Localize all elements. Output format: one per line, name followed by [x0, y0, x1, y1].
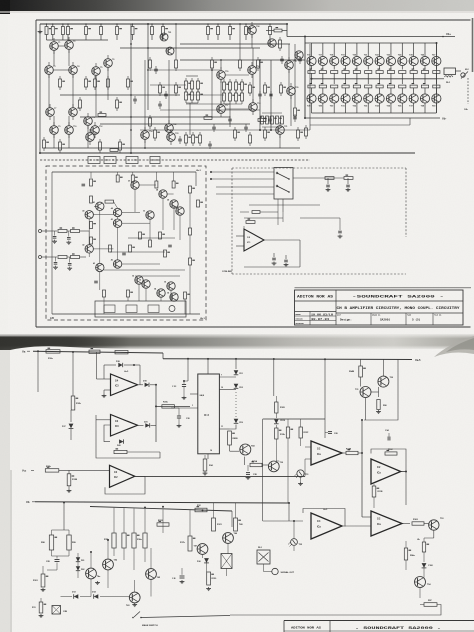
wire [63, 502, 65, 530]
resistor [257, 57, 259, 60]
resistor [297, 127, 299, 130]
wire [180, 59, 305, 61]
IC3 right pin 7 [219, 376, 236, 378]
wire [140, 129, 310, 131]
relay RL2 [257, 550, 270, 564]
ground at op-amp input [104, 389, 111, 391]
wire [53, 69, 69, 71]
capacitor [213, 124, 215, 127]
transistor T25 [160, 33, 168, 41]
wire [293, 521, 295, 539]
resistor [139, 232, 142, 239]
page 1 schematic frame [36, 19, 471, 21]
resistor [261, 116, 264, 124]
resistor [90, 222, 93, 229]
wire [244, 457, 246, 465]
capacitor [259, 91, 261, 94]
resistor R26b [114, 450, 127, 453]
resistor [43, 137, 45, 140]
resistor R98 [51, 530, 53, 535]
transistor T7 [46, 108, 55, 117]
resistor [159, 232, 162, 239]
wire [141, 616, 230, 618]
emitter resistor R124 (row 1) [401, 66, 403, 70]
wire loop [364, 360, 398, 421]
wire [186, 94, 224, 96]
input terminal 2 [39, 256, 42, 259]
resistor [264, 127, 266, 130]
wire [123, 508, 125, 533]
dashed separator line [40, 159, 310, 161]
emitter resistor R138 (row 2) [424, 79, 426, 84]
resistor [249, 82, 251, 85]
wire [264, 239, 300, 241]
wire [94, 205, 96, 207]
wire [251, 34, 253, 48]
emitter resistor R127 (row 1) [435, 66, 437, 70]
wire [103, 365, 105, 379]
wire [99, 272, 101, 290]
wire [290, 95, 292, 126]
resistor R16b [143, 533, 147, 548]
transistor T8 [69, 108, 78, 117]
wire [288, 44, 290, 61]
wire [99, 211, 101, 264]
IC3 box [198, 374, 220, 454]
resistor [175, 57, 177, 60]
resistor [258, 119, 266, 122]
wire [273, 359, 275, 396]
wire [160, 109, 260, 111]
wire op-amp outputs to IC3 [156, 405, 190, 407]
wire [220, 60, 222, 71]
wire [184, 299, 186, 314]
resistor R90 [377, 400, 380, 410]
capacitor C3B [180, 575, 185, 577]
wire [53, 116, 55, 126]
wire [305, 464, 371, 466]
wire [150, 69, 220, 71]
transistor T47 [131, 181, 139, 189]
wire [150, 84, 186, 86]
transistor T16 [248, 66, 257, 75]
capacitor [299, 56, 301, 59]
resistor R73a [250, 463, 262, 466]
dashed enclosure (coupling circuitry) [46, 166, 206, 320]
transistor T40 [85, 211, 93, 219]
junction [130, 43, 132, 45]
bottom rail of input stage [40, 152, 415, 154]
left feed bus of output stage [304, 37, 306, 119]
capacitor C30 [177, 415, 181, 417]
emitter resistor R122 (row 1) [379, 66, 381, 70]
resistor [127, 76, 129, 79]
resistor R121 [212, 518, 216, 531]
wire [305, 446, 311, 448]
capacitor C38 [247, 465, 249, 471]
capacitor [168, 244, 172, 246]
crystal C2B [52, 606, 61, 615]
wire [216, 193, 274, 195]
connector block [150, 157, 160, 164]
wire [60, 94, 180, 96]
power rail Ub- (bottom of output stage) [305, 117, 440, 119]
emitter resistor R128 (row 2) [311, 79, 313, 84]
capacitor [338, 230, 342, 232]
left bus wire [39, 24, 41, 153]
junction [130, 94, 132, 96]
resistor R13b [68, 470, 70, 473]
wire [127, 297, 129, 301]
junction dots page 2 [63, 502, 65, 504]
wire [227, 543, 229, 553]
wire [90, 552, 92, 568]
transistor T45 [113, 219, 121, 227]
ground [134, 603, 136, 605]
LED CD2 [234, 384, 239, 389]
output transistor T35 (row 2) [386, 94, 395, 103]
resistor [191, 78, 193, 81]
wire [288, 69, 290, 87]
dashed enclosure (relay section) [232, 167, 406, 169]
ground [97, 581, 99, 583]
resistor R96b [422, 542, 425, 552]
resistor [116, 97, 118, 100]
resistor R99 [68, 530, 70, 535]
resistor [129, 245, 132, 252]
output transistor T25 (row 1) [413, 43, 415, 57]
transistor T3 [45, 66, 54, 75]
transistor T54 [157, 289, 165, 297]
wire [138, 284, 140, 301]
dotted continuation [235, 392, 237, 417]
resistor R44 [71, 256, 80, 259]
resistor R5 [85, 24, 87, 27]
wire [95, 75, 97, 117]
wire [277, 199, 279, 225]
transistor T1 [50, 42, 59, 51]
capacitor [134, 96, 136, 99]
wire [252, 48, 254, 66]
capacitor C40 [327, 178, 329, 184]
resistor [155, 172, 157, 181]
wire [144, 509, 146, 533]
diode CD10 [275, 413, 277, 418]
transistor T47 [197, 544, 208, 555]
resistor R15 [269, 24, 271, 27]
wire [365, 398, 367, 421]
wire [339, 218, 341, 230]
diode D13 [74, 594, 79, 599]
transistor T10 [65, 126, 74, 135]
connector block [88, 157, 100, 164]
resistor R12a [46, 350, 60, 353]
resistor [110, 149, 118, 152]
LED CD9 [234, 419, 239, 424]
emitter resistor R118 (row 1) [333, 66, 335, 70]
feedback box R102 [378, 449, 404, 458]
resistor [223, 79, 225, 82]
wire [37, 351, 39, 392]
resistor [249, 132, 251, 135]
resistor R12 [217, 24, 219, 27]
transistor T45 [146, 569, 157, 580]
output transistor T16 (row 1) [311, 43, 313, 57]
wire [44, 147, 300, 149]
ground [378, 410, 380, 412]
resistor R42 [71, 230, 80, 233]
resistor R163 [412, 522, 424, 525]
feedback loop [105, 476, 145, 494]
capacitor C42 [273, 253, 275, 257]
resistor [159, 82, 161, 85]
wire [244, 217, 283, 219]
wire [225, 108, 249, 110]
wire [300, 217, 340, 219]
wire [160, 297, 162, 301]
wire [293, 177, 344, 179]
capacitor C43 [285, 255, 287, 259]
wire [226, 569, 228, 577]
resistor [173, 172, 175, 181]
wire [423, 568, 425, 578]
resistor [197, 78, 199, 81]
wire [72, 74, 74, 108]
resistor [85, 76, 87, 79]
resistor [119, 139, 121, 142]
transistor T30 [268, 461, 279, 472]
mask switch [134, 612, 140, 618]
output transistor T29 (row 2) [318, 94, 327, 103]
resistor [98, 114, 106, 117]
wire [68, 134, 70, 148]
transistor T20 [287, 87, 296, 96]
wire [382, 360, 384, 377]
wire [309, 44, 311, 130]
resistor [149, 240, 152, 247]
ground [208, 587, 210, 589]
wire [139, 184, 156, 186]
wire [170, 290, 172, 301]
transistor T4 [69, 66, 78, 75]
capacitor [294, 114, 296, 117]
output transistor T19 (row 1) [345, 43, 347, 57]
transistor T44 [240, 444, 251, 455]
feedback wire loop [104, 425, 111, 442]
sub-module box [95, 301, 186, 317]
resistor [105, 200, 114, 203]
wire [230, 605, 441, 616]
resistor R96a [404, 548, 407, 560]
wire [189, 103, 191, 135]
resistor R41 [58, 230, 67, 233]
emitter resistor R131 (row 2) [345, 79, 347, 84]
resistor R11 [207, 24, 209, 27]
wire [113, 508, 115, 533]
resistor [107, 76, 109, 79]
wire [117, 227, 119, 260]
wire [175, 24, 177, 57]
wire [189, 193, 191, 228]
resistor [192, 132, 194, 135]
resistor [127, 290, 130, 297]
wire [171, 407, 179, 409]
wire [402, 523, 410, 525]
resistor [235, 90, 237, 93]
wire [260, 211, 278, 213]
transistor T24 [248, 26, 257, 35]
wire [122, 263, 160, 265]
transistor T46 [223, 533, 234, 544]
wire [135, 275, 180, 277]
resistor R12c [89, 350, 100, 353]
resistor [241, 79, 243, 82]
wire [211, 178, 274, 180]
resistor R1 [46, 24, 48, 27]
resistor [191, 89, 193, 92]
resistor R16 [274, 29, 282, 32]
wire [68, 49, 70, 66]
resistor R7 [116, 24, 118, 27]
resistor [59, 139, 61, 142]
output transistor T22 (row 1) [379, 43, 381, 57]
resistor R13h [275, 428, 278, 439]
wire [262, 419, 264, 521]
resistor [79, 97, 81, 100]
IC3 left pin 1 [171, 407, 198, 409]
power rail Ub+ (top) [287, 36, 455, 38]
wire [144, 139, 146, 148]
wire [288, 503, 290, 521]
resistor [164, 250, 167, 257]
capacitor C33 [187, 359, 189, 381]
output transistor T30 (row 2) [330, 94, 339, 103]
output transistor T31 (row 2) [341, 94, 350, 103]
resistor [197, 200, 200, 207]
wire [104, 269, 185, 271]
wire [53, 50, 55, 66]
transistor T42 [85, 245, 93, 253]
transistor T52 (indicator) [291, 539, 298, 546]
transistor T28 [295, 51, 303, 59]
wire [235, 359, 237, 369]
IC3 left pin 2 [190, 393, 198, 395]
resistor R10b [45, 469, 59, 472]
output stage collector bus [305, 42, 437, 44]
transistor T41 [96, 202, 104, 210]
transistor T22 [165, 124, 174, 133]
transistor T48 [159, 190, 167, 198]
resistor R4 [67, 24, 69, 27]
wire [162, 198, 164, 230]
wire [107, 67, 109, 100]
wire [186, 75, 198, 77]
emitter resistor R136 (row 2) [401, 79, 403, 84]
output transistor T36 (row 2) [398, 94, 407, 103]
wire [262, 464, 268, 466]
resistor R9 [151, 24, 153, 27]
resistor [90, 237, 93, 244]
resistor R120 [207, 572, 211, 585]
diode D17 [70, 410, 72, 422]
ground [178, 424, 180, 426]
resistor R60 [325, 177, 334, 180]
transistor T43 [96, 263, 104, 271]
resistor [294, 105, 296, 108]
wire [220, 79, 222, 105]
output diode D19 [138, 384, 144, 386]
wire [433, 530, 435, 538]
output inductor RL1 [436, 78, 444, 80]
op-amp ICa1 [311, 441, 342, 465]
wire [150, 548, 152, 569]
emitter resistor R130 (row 2) [333, 79, 335, 84]
IC3 right pin 10 [219, 389, 236, 391]
wire [93, 248, 113, 250]
emitter resistor R133 (row 2) [367, 79, 369, 84]
output transistor T24 (row 1) [401, 43, 403, 57]
wire [270, 60, 272, 130]
transistor T14 [141, 131, 150, 140]
wire [213, 503, 215, 518]
wire [225, 74, 249, 76]
diode C100 [423, 552, 425, 562]
wire [168, 60, 170, 124]
LED CD1 [234, 370, 239, 375]
transistor T12 [91, 126, 100, 135]
transistor T55 [167, 282, 175, 290]
resistor [264, 82, 266, 85]
wire [96, 352, 98, 379]
resistor R97 [420, 604, 424, 606]
transistor T51 [146, 211, 154, 219]
capacitor [209, 141, 211, 144]
resistor R6 [100, 24, 102, 27]
capacitor [245, 124, 247, 127]
wire [128, 237, 175, 239]
output transistor T37 (row 2) [409, 94, 418, 103]
resistor [154, 127, 156, 130]
wire [401, 471, 406, 473]
ground [68, 489, 70, 491]
resistor R43 [58, 256, 67, 259]
emitter resistor R137 (row 2) [413, 79, 415, 84]
wire [189, 235, 191, 258]
connector block [104, 157, 116, 164]
transistor T27 [268, 39, 276, 47]
output transistor T20 (row 1) [356, 43, 358, 57]
wire [134, 189, 136, 212]
resistor R105 [275, 402, 278, 413]
diode D16 [204, 558, 209, 563]
resistor R16a [132, 533, 136, 548]
resistor R17b [188, 536, 192, 551]
capacitor C22 [68, 231, 70, 237]
relay coil [221, 554, 232, 569]
transistor T15 [217, 71, 226, 80]
ground [204, 472, 206, 474]
ground [42, 588, 44, 590]
resistor [211, 57, 213, 60]
emitter resistor R132 (row 2) [356, 79, 358, 84]
wire [47, 39, 109, 41]
ground [183, 396, 185, 398]
transistor T53 [429, 520, 439, 530]
wire [324, 359, 326, 438]
resistor R8 [132, 24, 134, 27]
output emitter bus [312, 78, 437, 80]
wire [229, 445, 231, 451]
